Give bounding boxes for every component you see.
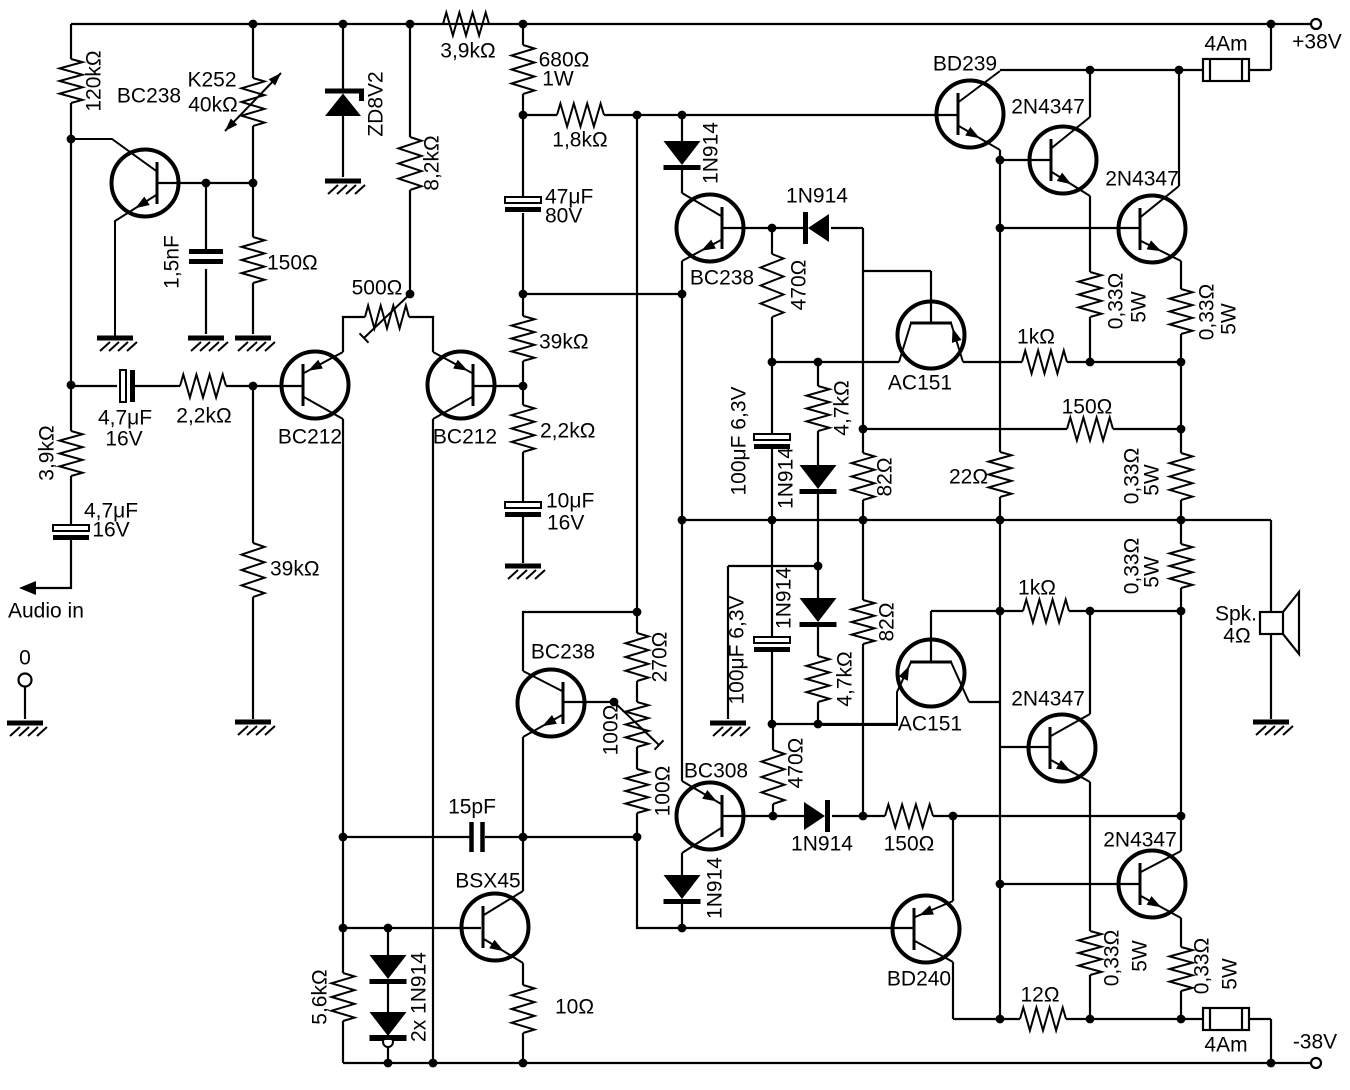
node (388,928) <box>384 924 393 933</box>
wire 1.8k left <box>523 114 557 116</box>
node (1000,611) <box>996 607 1005 616</box>
wire 15pF left <box>343 836 470 838</box>
diode 1N914 (lower) <box>804 800 828 832</box>
wire BD240 collector v <box>952 962 954 1019</box>
label 47μF <box>545 186 593 209</box>
wire 0.33R5 to rail <box>1089 975 1091 1019</box>
wire fuse1 to corner <box>1249 69 1271 71</box>
label 4,7kΩ lower <box>834 651 857 706</box>
wire diode5 to base wire <box>681 904 683 928</box>
label 5,6kΩ <box>309 969 332 1024</box>
label 1N914 lower bias <box>773 567 796 629</box>
resistor 100Ω trimmer <box>626 702 649 747</box>
AC151b collector line <box>951 662 969 702</box>
node (772,362) <box>768 358 777 367</box>
node (1000,160) <box>996 156 1005 165</box>
svg-text:BD239: BD239 <box>933 53 997 76</box>
wire bias node y362 left <box>772 361 899 363</box>
wire trimmer to 100R <box>636 747 638 769</box>
transistor BD239 <box>937 71 1004 150</box>
node (1090,70) <box>1086 66 1095 75</box>
label 39kΩ upper <box>539 331 589 354</box>
wire BD239 collector to fuse <box>1000 69 1203 71</box>
svg-text:0,33Ω: 0,33Ω <box>1101 930 1124 987</box>
label 150Ω lower <box>884 833 935 856</box>
svg-text:8,2kΩ: 8,2kΩ <box>421 135 444 190</box>
capacitor 15pF <box>472 822 483 852</box>
node (253,24) <box>249 20 258 29</box>
node (614,702) <box>610 698 619 707</box>
label AC151 lower <box>898 713 962 736</box>
wire 150R2 to speaker column <box>933 815 1181 817</box>
resistor 8,2kΩ <box>399 137 422 190</box>
node (433,1063) <box>429 1059 438 1068</box>
resistor 150Ω (lower) <box>885 805 933 828</box>
label BSX45 <box>455 870 520 893</box>
label 0,33Ω 4 <box>1121 538 1144 595</box>
wire diode2 to x863 <box>831 227 863 229</box>
label Audio in <box>8 600 84 623</box>
wire 270R top <box>636 612 638 633</box>
BC238 ripple emitter <box>115 195 157 337</box>
node (818,566) <box>814 562 823 571</box>
wire 5.6k to rail <box>342 1021 344 1063</box>
label BC212 a <box>278 426 342 449</box>
wire 500R right terminal <box>409 317 433 352</box>
svg-text:1N914: 1N914 <box>773 567 796 629</box>
label 39kΩ base <box>270 558 320 581</box>
resistor 3,9kΩ (input) <box>60 431 83 476</box>
label Spk. <box>1215 603 1257 626</box>
wire 680ohm to 1.8k node <box>522 94 524 115</box>
wire base node to 39k <box>252 386 254 543</box>
AC151b emitter line <box>818 662 911 725</box>
svg-text:470Ω: 470Ω <box>788 260 811 311</box>
label 150Ω e <box>267 252 318 275</box>
node (637,612) <box>633 608 642 617</box>
svg-text:5W: 5W <box>1141 464 1164 496</box>
terminal 0 <box>19 674 32 687</box>
ground (BC238 emitter) <box>97 338 137 351</box>
wire left column lower <box>70 476 72 525</box>
label 680Ω <box>539 49 590 72</box>
svg-text:0,33Ω: 0,33Ω <box>1196 284 1219 341</box>
wire 4.7k1 to diode3 <box>817 431 819 465</box>
svg-text:5W: 5W <box>1129 940 1152 972</box>
label 5W 2 <box>1218 303 1241 335</box>
wire 39k to ground <box>252 597 254 719</box>
label BD240 <box>887 968 951 991</box>
fuse 4Am (+38V) <box>1203 59 1249 81</box>
label 1,5nF <box>161 235 184 289</box>
ground (speaker) <box>1253 722 1293 735</box>
label 0,33Ω 1 <box>1105 273 1128 330</box>
ground (39kΩ) <box>235 722 275 735</box>
transistor BC238 (predriver upper) <box>677 193 744 262</box>
node (1090,362) <box>1086 358 1095 367</box>
resistor 500Ω trimmer <box>365 306 409 329</box>
svg-text:3,9kΩ: 3,9kΩ <box>36 425 59 480</box>
wire 8.2k top <box>409 24 411 137</box>
wire 150R1 right <box>1113 428 1181 430</box>
resistor 22Ω <box>989 452 1012 497</box>
2N4347d emitter arrow <box>1147 896 1162 907</box>
transistor 2N4347 (lower a) <box>1029 714 1096 782</box>
label 470Ω lower <box>785 738 808 789</box>
resistor 39kΩ (base) <box>242 543 265 597</box>
node (682,115) <box>678 111 687 120</box>
svg-text:150Ω: 150Ω <box>884 833 935 856</box>
diode 1N914 (bias top) <box>806 212 830 244</box>
svg-text:0: 0 <box>19 647 31 670</box>
wire 2N4347b emitter v <box>1180 261 1182 289</box>
terminal +38V <box>1311 19 1321 29</box>
wire AC151b collector h <box>969 701 1000 703</box>
label 0,33Ω 6 <box>1191 938 1214 995</box>
node (863,816) <box>859 812 868 821</box>
resistor 10Ω <box>512 985 535 1033</box>
BSX45 emitter arrow <box>489 940 504 952</box>
node (682,294) <box>678 290 687 299</box>
svg-text:2N4347: 2N4347 <box>1103 829 1177 852</box>
resistor 4,7kΩ (upper) <box>807 386 830 431</box>
wire 39k2 to base node b <box>522 361 524 386</box>
ground (zener) <box>325 181 365 194</box>
wire +38 terminal <box>1271 23 1311 25</box>
wire AC151a base horiz <box>863 270 931 272</box>
wire -38 rail left <box>953 1018 1020 1020</box>
wire lower gnd wire <box>772 723 897 725</box>
svg-text:100Ω: 100Ω <box>652 766 675 817</box>
wire 47uF top <box>522 115 524 197</box>
BD239 emitter arrow <box>965 127 980 138</box>
wire BC238d collector path <box>523 612 637 671</box>
resistor 5,6kΩ <box>332 973 355 1021</box>
label 8,2kΩ <box>421 135 444 190</box>
svg-text:1N914: 1N914 <box>700 122 723 184</box>
ground (bias network) <box>710 723 750 736</box>
svg-text:270Ω: 270Ω <box>649 632 672 683</box>
wire 2N4347d base <box>1000 883 1139 885</box>
label 100Ω fixed <box>652 766 675 817</box>
BC212 left emitter arrow <box>308 360 323 371</box>
svg-text:500Ω: 500Ω <box>352 277 403 300</box>
label -38V <box>1293 1031 1337 1054</box>
wire 1.8k to BD239 base <box>604 114 959 116</box>
label 0,33Ω 5 <box>1101 930 1124 987</box>
svg-text:22Ω: 22Ω <box>949 466 988 489</box>
svg-text:2,2kΩ: 2,2kΩ <box>176 405 231 428</box>
label BC238 c <box>690 267 754 290</box>
svg-text:AC151: AC151 <box>888 372 952 395</box>
svg-text:4Ω: 4Ω <box>1223 625 1250 648</box>
AC151b emitter arrow <box>899 666 910 681</box>
label 82Ω lower <box>876 602 899 641</box>
svg-text:150Ω: 150Ω <box>1062 396 1113 419</box>
ground (10μF) <box>505 566 545 579</box>
resistor 82Ω (lower) <box>852 600 875 644</box>
transistor BC238 (VAS) <box>518 670 585 738</box>
label 2,2kΩ input <box>176 405 231 428</box>
svg-text:10μF: 10μF <box>546 490 594 513</box>
wire gnd column <box>727 566 729 719</box>
wire speaker top <box>1270 520 1272 612</box>
wire rail to 100uF2 top <box>771 520 773 637</box>
resistor 2,2kΩ (tail) <box>512 405 535 452</box>
label 1kΩ upper <box>1017 326 1055 349</box>
node (772,228) <box>768 224 777 233</box>
label 1N914 lower <box>791 833 853 856</box>
AC151a emitter arrow <box>952 328 962 343</box>
speaker Spk 4Ω <box>1260 592 1299 654</box>
svg-text:BC212: BC212 <box>433 426 497 449</box>
label BC212 b <box>433 426 497 449</box>
label 2N4347 a <box>1011 96 1085 119</box>
svg-text:2,2kΩ: 2,2kΩ <box>540 420 595 443</box>
node (71,139) <box>67 135 76 144</box>
svg-text:120kΩ: 120kΩ <box>83 50 106 111</box>
svg-text:82Ω: 82Ω <box>876 602 899 641</box>
label 2,2kΩ tail <box>540 420 595 443</box>
transistor 2N4347 (upper a) <box>1030 117 1097 196</box>
svg-text:4,7kΩ: 4,7kΩ <box>834 651 857 706</box>
capacitor 100μF 6,3V (lower) <box>754 637 790 650</box>
svg-text:470Ω: 470Ω <box>785 738 808 789</box>
svg-text:1kΩ: 1kΩ <box>1018 577 1056 600</box>
node (410,24) <box>406 20 415 29</box>
resistor 12Ω <box>1020 1008 1066 1031</box>
svg-text:ZD8V2: ZD8V2 <box>365 71 388 136</box>
svg-text:4,7kΩ: 4,7kΩ <box>831 380 854 435</box>
svg-text:5W: 5W <box>1218 303 1241 335</box>
label 16V input <box>92 519 129 542</box>
svg-text:2N4347: 2N4347 <box>1105 168 1179 191</box>
node (388,1063) <box>384 1059 393 1068</box>
wire between series diodes <box>387 982 389 1012</box>
wire BC212a collector column <box>342 419 344 973</box>
wire input node to cap <box>71 385 117 387</box>
label 150Ω upper <box>1062 396 1113 419</box>
resistor 0,33Ω 5W #4 <box>1170 544 1193 588</box>
node (71,385) <box>67 381 76 390</box>
label 2x 1N914 <box>408 952 431 1042</box>
node (523,837) <box>519 833 528 842</box>
label 40kΩ <box>188 94 238 117</box>
label 1kΩ lower <box>1018 577 1056 600</box>
svg-text:10Ω: 10Ω <box>555 996 594 1019</box>
wire left column mid <box>70 103 72 431</box>
label 4,7μF coupling <box>98 407 152 430</box>
svg-text:BC238: BC238 <box>690 267 754 290</box>
node (410,294) <box>406 290 415 299</box>
svg-text:0,33Ω: 0,33Ω <box>1191 938 1214 995</box>
svg-text:15pF: 15pF <box>448 796 496 819</box>
transistor 2N4347 (lower b) <box>1119 851 1186 919</box>
label 10μF <box>546 490 594 513</box>
wire diode4 to 150R2 <box>832 815 885 817</box>
node (1000,520) <box>996 516 1005 525</box>
label BC308 <box>684 760 748 783</box>
transistor BSX45 <box>462 891 529 963</box>
transistor AC151 (lower) <box>898 640 965 707</box>
wire output rail <box>682 519 1271 521</box>
svg-text:16V: 16V <box>92 519 129 542</box>
wire 2N4347c base <box>1000 746 1049 748</box>
resistor 2,2kΩ (input) <box>180 375 226 398</box>
100Ω trimmer wiper <box>614 702 664 750</box>
svg-text:1N914: 1N914 <box>775 447 798 509</box>
wire AC151b base vert <box>930 611 932 662</box>
svg-text:4Am: 4Am <box>1204 33 1247 56</box>
resistor 0,33Ω 5W #2 <box>1170 289 1193 334</box>
wire BD239 emitter stub <box>999 150 1001 160</box>
zener diode ZD8V2 <box>325 91 364 116</box>
svg-text:82Ω: 82Ω <box>874 457 897 496</box>
wire AC151a base vert <box>930 271 932 323</box>
svg-text:Spk.: Spk. <box>1215 603 1257 626</box>
resistor 680Ω 1W <box>512 45 535 94</box>
label 2N4347 d <box>1103 829 1177 852</box>
wire bottom rail <box>343 1062 1271 1064</box>
label 500Ω <box>352 277 403 300</box>
wire 2.2k2 to 10uF <box>522 452 524 502</box>
svg-text:1,5nF: 1,5nF <box>161 235 184 289</box>
resistor 150Ω (emitter) <box>242 237 265 283</box>
wire 470R bottom to node <box>771 317 773 434</box>
transistor BC238 (ripple filter) <box>112 150 179 217</box>
BC308 emitter arrow <box>702 790 717 801</box>
label 10Ω <box>555 996 594 1019</box>
wire 100R to 15pF node <box>636 813 638 837</box>
svg-text:1N914: 1N914 <box>791 833 853 856</box>
svg-text:1W: 1W <box>542 68 574 91</box>
capacitor 10μF 16V <box>505 502 541 515</box>
node (1000,1019) <box>996 1015 1005 1024</box>
wire 2N4347c collector v <box>1089 611 1091 714</box>
label 5W 4 <box>1141 556 1164 588</box>
wire BC238d base <box>563 701 614 703</box>
audio in arrow <box>19 581 36 595</box>
svg-text:2x 1N914: 2x 1N914 <box>408 952 431 1042</box>
node (1090,611) <box>1086 607 1095 616</box>
wire 8.2k to trimmer wiper <box>409 190 411 294</box>
label 4Am top <box>1204 33 1247 56</box>
wire BSX45 base <box>343 927 481 929</box>
diode 1N914 (top) <box>664 141 701 168</box>
wire x637 column <box>636 115 638 612</box>
label 5W 5 <box>1129 940 1152 972</box>
wire 680ohm top <box>522 24 524 45</box>
svg-text:1N914: 1N914 <box>704 857 727 919</box>
resistor 120kΩ <box>60 59 83 103</box>
label 1W <box>542 68 574 91</box>
svg-text:2N4347: 2N4347 <box>1011 688 1085 711</box>
BD240 emitter arrow <box>919 905 934 915</box>
svg-text:AC151: AC151 <box>898 713 962 736</box>
resistor 1,8kΩ <box>557 104 604 127</box>
resistor 270Ω <box>626 633 649 681</box>
wire BD240 emitter v <box>952 816 954 901</box>
label +38V <box>1292 31 1342 54</box>
wire 2.2k to base node <box>226 385 253 387</box>
wire 4.7k2 bottom <box>817 702 819 724</box>
wire diode1 to BC238 collector <box>681 170 683 193</box>
terminal -38V <box>1311 1058 1321 1068</box>
resistor 0,33Ω 5W #1 <box>1079 272 1102 317</box>
svg-text:-38V: -38V <box>1293 1031 1337 1054</box>
label 1N914 upper bias <box>775 447 798 509</box>
wire 82R2 to diode4 node <box>862 644 864 816</box>
wire -38 terminal <box>1271 1062 1311 1064</box>
wire 100uF1 bottom to rail <box>771 449 773 520</box>
wire x1181 rail join <box>1180 500 1182 544</box>
resistor 0,33Ω 5W #5 <box>1079 931 1102 975</box>
svg-text:K252: K252 <box>187 69 236 92</box>
node (1181,1019) <box>1177 1015 1186 1024</box>
wire 0.33R4 to rail <box>1180 991 1182 1019</box>
capacitor 100μF 6,3V (upper) <box>754 434 790 447</box>
svg-text:3,9kΩ: 3,9kΩ <box>440 40 495 63</box>
wire 2N4347a base <box>1000 159 1050 161</box>
wire 82R1 to rail <box>862 500 864 520</box>
svg-text:5,6kΩ: 5,6kΩ <box>309 969 332 1024</box>
wire 2N4347d emitter <box>1180 918 1182 947</box>
wire 47uF bottom <box>522 213 524 293</box>
wire gnd column to lower bias node <box>728 565 818 567</box>
label 470Ω upper <box>788 260 811 311</box>
wire x1181 2N4347d collector <box>1180 816 1182 851</box>
diode 2x 1N914 a <box>370 955 407 982</box>
BC238 ripple collector <box>71 139 157 172</box>
svg-text:100Ω: 100Ω <box>600 705 623 756</box>
svg-text:BSX45: BSX45 <box>455 870 520 893</box>
wire diode3 to lower node <box>817 493 819 566</box>
svg-text:2N4347: 2N4347 <box>1011 96 1085 119</box>
capacitor 4,7μF 16V (input) <box>53 525 89 538</box>
svg-text:1,8kΩ: 1,8kΩ <box>552 129 607 152</box>
node (637,837) <box>633 833 642 842</box>
label 5W 6 <box>1219 958 1242 990</box>
wire 1k to emitter columns <box>1067 361 1181 363</box>
wire x1181 to diode4 wire <box>1180 588 1182 816</box>
wire AC151a emitter to 1k <box>963 361 1022 363</box>
svg-text:0,33Ω: 0,33Ω <box>1105 273 1128 330</box>
wire 2N4347b base <box>1000 227 1139 229</box>
capacitor 1,5nF <box>189 252 223 262</box>
diode 2x 1N914 b <box>370 1012 407 1039</box>
wire speaker bottom <box>1270 634 1272 719</box>
node (253,386) <box>249 382 258 391</box>
label 1N914 bias top <box>786 185 848 208</box>
wire x1181 emitter2 to 0.33 <box>1180 334 1182 453</box>
svg-text:12Ω: 12Ω <box>1020 984 1059 1007</box>
node (818,724) <box>814 720 823 729</box>
wire BC308 base <box>722 815 773 817</box>
wire 150ohm to ground <box>252 283 254 334</box>
capacitor 4,7μF 16V (coupling) <box>120 370 133 402</box>
node (1181,520) <box>1177 516 1186 525</box>
svg-text:BC212: BC212 <box>278 426 342 449</box>
label 100Ω trim <box>600 705 623 756</box>
wire BC238 base node <box>157 182 253 184</box>
node (1181,362) <box>1177 358 1186 367</box>
wire rail to 82R2 <box>862 520 864 600</box>
wire BC238c base to diode2 <box>772 227 803 229</box>
junction circle on diode string <box>370 1037 407 1047</box>
wire cap to 2.2k <box>134 385 180 387</box>
svg-text:150Ω: 150Ω <box>267 252 318 275</box>
label 0 <box>19 647 31 670</box>
